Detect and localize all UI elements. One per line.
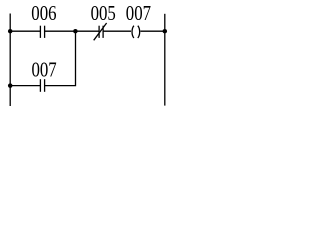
svg-text:007: 007 [126,3,151,25]
label 007 (coil) [126,3,151,25]
wire: left rail to contact 007 [10,85,40,87]
contact 006 (NO contact bars) [40,26,44,38]
wire: branch vertical drop with corner to contact 007 [45,31,76,85]
left power rail [9,14,11,107]
contact 007 (NO contact bars, branch) [40,79,44,92]
coil 007 (parentheses) [132,26,140,38]
svg-text:006: 006 [31,3,56,25]
node: branch junction on top rung [73,29,78,34]
wire: left rail to contact 006 [10,30,40,32]
wire: contact 005 to coil 007 [103,30,131,32]
node: top rung on right rail [163,29,168,34]
label 006 [31,3,56,25]
label 007 (branch contact) [32,60,57,82]
label 005 [91,3,116,25]
right power rail [164,14,166,106]
svg-text:005: 005 [91,3,116,25]
node: top rung on left rail [8,29,13,34]
wire: contact 006 to contact 005 [45,30,100,32]
svg-text:007: 007 [32,60,57,82]
wire: coil 007 to right rail [141,30,165,32]
node: branch on left rail [8,83,13,88]
contact 005 (NC contact bars with slash) [94,23,107,40]
